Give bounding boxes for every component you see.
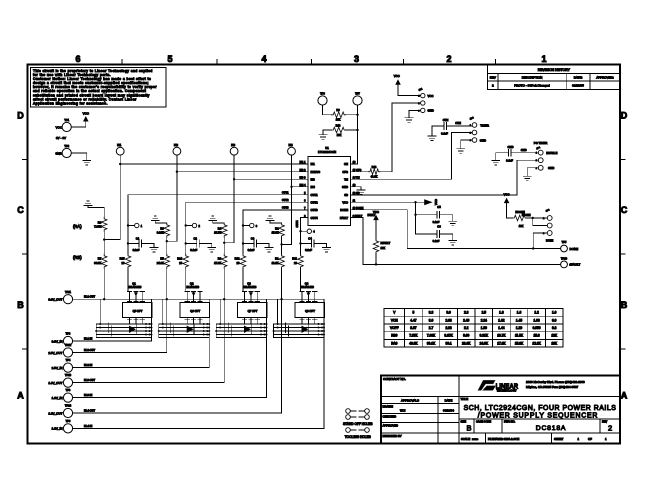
wire divider drop ch4 <box>280 268 282 413</box>
ground <box>151 216 167 223</box>
resistor R7 <box>94 240 107 269</box>
svg-text:8.87K: 8.87K <box>444 334 453 338</box>
wire drain bus ch2 <box>159 298 209 300</box>
svg-text:6: 6 <box>75 54 80 64</box>
svg-text:IN1: IN1 <box>117 143 122 147</box>
resistor RDONE <box>507 210 548 228</box>
wire ON net <box>351 105 358 164</box>
svg-text:IRL3714ZS: IRL3714ZS <box>186 286 199 289</box>
wire source bus ch2 <box>158 299 210 337</box>
ground <box>319 130 327 139</box>
svg-text:OUT4: OUT4 <box>295 220 299 227</box>
ground <box>150 244 158 252</box>
tooling holes <box>345 428 371 439</box>
svg-text:CAGE CODE: CAGE CODE <box>476 420 491 423</box>
svg-text:Q8 OPT: Q8 OPT <box>305 309 315 313</box>
svg-text:C3: C3 <box>251 236 255 240</box>
svg-text:DATE: DATE <box>445 398 453 402</box>
svg-text:D: D <box>17 111 24 121</box>
zone labels <box>17 54 628 401</box>
svg-text:DC818A: DC818A <box>536 425 567 432</box>
voltage/resistor selection table <box>384 309 563 348</box>
svg-text:R6: R6 <box>160 227 164 231</box>
wire FAULT net <box>351 213 561 265</box>
svg-text:IN3 3: IN3 3 <box>300 176 307 179</box>
svg-text:IN3: IN3 <box>311 177 316 181</box>
test point TP7 <box>353 91 362 105</box>
svg-text:Q1: Q1 <box>132 282 136 286</box>
ground <box>457 149 465 153</box>
svg-text:28.0K: 28.0K <box>462 341 471 345</box>
ground <box>208 244 216 252</box>
wire CFG riser <box>392 103 421 172</box>
svg-text:24.9K: 24.9K <box>480 341 489 345</box>
svg-text:C5: C5 <box>437 205 441 209</box>
transistor Q8 footprint <box>295 299 325 324</box>
title block <box>381 376 620 444</box>
capacitor C2 <box>185 226 212 252</box>
svg-text:Q5 OPT: Q5 OPT <box>133 309 143 313</box>
svg-text:15.8K: 15.8K <box>515 341 524 345</box>
svg-text:3.0: 3.0 <box>429 318 434 322</box>
wire SD net <box>351 160 539 195</box>
wire TM net <box>351 133 473 180</box>
svg-text:RL1-IN: RL1-IN <box>84 336 92 340</box>
test point TP8 <box>318 91 327 114</box>
transistor Q6 footprint <box>180 299 210 324</box>
svg-text:2.5V_IN: 2.5V_IN <box>52 366 63 370</box>
svg-text:RL4-OUT: RL4-OUT <box>84 408 96 412</box>
svg-text:IN4: IN4 <box>311 185 316 189</box>
test point TP10 <box>561 256 581 267</box>
test point TP4 2.5V_IN <box>52 358 73 372</box>
svg-text:C8: C8 <box>437 225 441 229</box>
svg-text:WCI: WCI <box>400 409 406 413</box>
test point TP11 3.3V_OUT <box>48 290 72 304</box>
ground <box>428 136 436 140</box>
svg-text:C4: C4 <box>308 236 312 240</box>
svg-text:RDONE: RDONE <box>522 214 531 217</box>
svg-text:R8: R8 <box>98 221 102 225</box>
svg-text:DESIGNED BY: DESIGNED BY <box>383 434 402 438</box>
svg-text:PG TIMER: PG TIMER <box>534 141 547 145</box>
svg-text:1.2V_OUT: 1.2V_OUT <box>48 411 62 415</box>
capacitor C1 <box>127 226 154 252</box>
svg-text:GND: GND <box>480 139 486 143</box>
svg-text:B: B <box>467 424 472 433</box>
svg-text:20: 20 <box>122 261 125 265</box>
svg-text:TECHNOLOGY: TECHNOLOGY <box>497 389 517 392</box>
wire RL3-IN <box>73 393 267 398</box>
wire source bus ch4 <box>273 299 325 337</box>
svg-text:R11: R11 <box>292 257 297 261</box>
wire IN2 vertical <box>167 155 178 241</box>
svg-text:20: 20 <box>237 261 240 265</box>
ground <box>449 241 457 245</box>
wire RL3-OUT <box>73 378 225 383</box>
resistor R5 <box>157 241 170 268</box>
svg-text:4: 4 <box>261 54 266 64</box>
svg-text:OUT1: OUT1 <box>311 193 319 197</box>
svg-text:DONE: DONE <box>546 240 554 243</box>
svg-text:R9: R9 <box>336 108 340 112</box>
power flag VCC JP1 <box>394 74 421 96</box>
resistor R14 <box>177 244 188 292</box>
wire ch4 to RL4-IN <box>323 299 325 428</box>
svg-text:RFAULT: RFAULT <box>381 241 391 245</box>
svg-text:5: 5 <box>167 54 172 64</box>
diode D2 <box>187 325 194 334</box>
svg-text:5: 5 <box>413 311 415 315</box>
wire VCC net <box>351 201 425 203</box>
test point TP12 2.5V_OUT <box>48 343 72 357</box>
svg-text:9.09: 9.09 <box>463 334 469 338</box>
diode D3 <box>244 325 251 334</box>
wire RL3-OUT riser <box>223 272 225 383</box>
test point TP2 <box>55 144 86 161</box>
resistor R2 <box>272 223 285 246</box>
wire OUT3 from IC <box>243 210 308 226</box>
svg-text:VCC: VCC <box>373 210 379 214</box>
wire ch2 to RL2-IN <box>208 299 210 367</box>
test point TP3 3.3V_IN <box>52 332 73 346</box>
resistor R13 <box>351 165 393 179</box>
svg-text:TP3: TP3 <box>66 332 71 336</box>
svg-text:R5: R5 <box>160 257 164 261</box>
wire ch3 to RL3-IN <box>266 299 268 397</box>
svg-text:30.1K: 30.1K <box>427 341 436 345</box>
ground <box>84 201 104 217</box>
turret E3 <box>242 223 258 228</box>
resistor R15 <box>120 244 131 292</box>
stand off holes <box>343 409 373 427</box>
ground <box>523 176 531 180</box>
svg-text:Milpitas, CA 95035 Fax: (408: Milpitas, CA 95035 Fax: (408)434-0507 <box>526 385 579 389</box>
svg-text:1630 McCarthy Blvd. Phone: (4: 1630 McCarthy Blvd. Phone: (408)432-1900 <box>526 380 585 384</box>
svg-text:0.1uF: 0.1uF <box>248 248 255 252</box>
ground <box>492 161 500 165</box>
svg-text:R3: R3 <box>218 257 222 261</box>
wire OUT4 from IC <box>301 218 309 232</box>
svg-text:2: 2 <box>446 54 451 64</box>
svg-text:DONE: DONE <box>570 247 579 251</box>
svg-text:2: 2 <box>608 424 612 433</box>
capacitor CTM <box>432 118 472 136</box>
svg-text:R10: R10 <box>336 123 341 127</box>
wire source bus ch3 <box>215 299 267 337</box>
svg-text:IN1 1: IN1 1 <box>300 161 307 164</box>
wire RL2-IN <box>73 363 210 368</box>
svg-text:12.1K: 12.1K <box>532 341 541 345</box>
svg-text:A: A <box>17 391 24 401</box>
svg-text:3.0: 3.0 <box>446 311 451 315</box>
wire OUT1 from IC <box>128 195 308 226</box>
svg-text:30.1: 30.1 <box>445 341 451 345</box>
svg-text:CMD: CMD <box>508 145 514 149</box>
power flag VCC right <box>424 199 438 205</box>
svg-text:FILENAME: 818A-2.SCH: FILENAME: 818A-2.SCH <box>488 437 519 441</box>
wire drain rail y=299 <box>73 298 324 300</box>
node IN4 <box>288 143 296 155</box>
capacitor C3 <box>242 226 269 252</box>
wire IN3 to IC <box>234 178 308 180</box>
svg-text:36.5K: 36.5K <box>94 261 101 265</box>
wire drain bus ch4 <box>274 298 324 300</box>
svg-text:DWG NO.: DWG NO. <box>504 420 516 423</box>
svg-text:2.8: 2.8 <box>464 311 469 315</box>
Linear Technology logo <box>478 380 585 393</box>
svg-text:2.38: 2.38 <box>445 326 451 330</box>
test point TP9 1.8V_IN <box>52 388 73 402</box>
svg-text:10K: 10K <box>381 246 386 250</box>
ground <box>266 216 282 223</box>
wire IN4 to IC <box>292 186 309 188</box>
svg-text:GND: GND <box>428 109 434 113</box>
svg-text:R13: R13 <box>372 165 377 169</box>
svg-text:IRL3714ZS: IRL3714ZS <box>129 286 142 289</box>
svg-text:TP11: TP11 <box>65 290 72 294</box>
svg-text:0.1uF: 0.1uF <box>133 248 140 252</box>
svg-text:DRAWN: DRAWN <box>383 404 393 408</box>
resistor R1 <box>272 244 285 268</box>
test point TP5 <box>561 240 579 252</box>
test point TP6 1.2V_IN <box>52 419 73 433</box>
transistor Q3 <box>242 282 259 300</box>
svg-text:SCH, LTC2924CGN, FOUR POWER RA: SCH, LTC2924CGN, FOUR POWER RAILS <box>464 405 617 412</box>
wire divider drop ch2 <box>166 268 168 353</box>
svg-text:CMD: CMD <box>521 148 527 152</box>
resistor R3 <box>214 243 227 269</box>
svg-text:CTM: CTM <box>443 118 449 122</box>
svg-text:3.97: 3.97 <box>410 326 416 330</box>
zone tick marks <box>23 60 626 349</box>
svg-text:C2: C2 <box>193 236 197 240</box>
svg-text:VCC: VCC <box>504 193 510 197</box>
svg-text:12K: 12K <box>551 334 558 338</box>
resistor R6 <box>157 223 170 242</box>
svg-text:1.45: 1.45 <box>516 318 522 322</box>
svg-text:FAULT: FAULT <box>340 216 349 220</box>
node IN1 <box>116 143 124 155</box>
svg-text:0.1uF: 0.1uF <box>433 239 440 243</box>
ground <box>405 118 413 122</box>
svg-text:15.8K: 15.8K <box>272 231 279 235</box>
svg-text:RL2-OUT: RL2-OUT <box>84 348 96 352</box>
svg-text:TIMER: TIMER <box>480 123 489 127</box>
resistor R4 <box>214 223 227 244</box>
jumper JP4 PG TIMER <box>527 141 557 176</box>
svg-text:RL4-IN: RL4-IN <box>84 424 92 428</box>
svg-text:7.68K: 7.68K <box>94 225 101 229</box>
transistor Q4 <box>300 282 317 300</box>
svg-text:OUT1: OUT1 <box>282 191 289 194</box>
svg-text:VCC: VCC <box>83 112 90 116</box>
svg-text:TP1: TP1 <box>64 118 69 122</box>
svg-text:2.5V_OUT: 2.5V_OUT <box>48 351 62 355</box>
svg-text:VOFF: VOFF <box>390 326 399 330</box>
svg-text:C: C <box>621 205 628 215</box>
svg-text:IN4: IN4 <box>288 143 293 147</box>
op-amp U1 LTC2924CGN <box>282 146 364 226</box>
wire IN4 vertical <box>282 155 293 244</box>
wire RL4-OUT riser <box>281 272 283 413</box>
power flag VCC input <box>83 112 90 128</box>
test point TP14 1.2V_OUT <box>48 404 72 418</box>
svg-text:B: B <box>621 300 628 310</box>
svg-text:NOHYS: NOHYS <box>311 170 321 174</box>
wire RL4-IN <box>73 424 324 429</box>
svg-text:VON: VON <box>391 318 399 322</box>
wire OUT2 from IC <box>186 202 308 225</box>
wire divider drop ch3 <box>223 268 225 383</box>
wire DONE net <box>351 210 561 250</box>
svg-text:Q3: Q3 <box>247 282 251 286</box>
svg-text:12.1K: 12.1K <box>272 261 279 265</box>
svg-text:3: 3 <box>354 54 359 64</box>
svg-text:3.3V_IN: 3.3V_IN <box>52 339 63 343</box>
ground <box>265 244 273 252</box>
resistor RFAULT <box>373 239 390 264</box>
svg-text:0.1uF: 0.1uF <box>433 220 440 224</box>
test point TP1 <box>56 118 86 132</box>
proprietary notice box <box>31 68 167 108</box>
svg-text:IN4 4: IN4 4 <box>300 184 307 187</box>
svg-text:48.9K: 48.9K <box>371 175 378 179</box>
svg-text:GND: GND <box>548 166 554 170</box>
svg-text:R4: R4 <box>218 227 222 231</box>
wire IN1 to IC <box>120 163 308 165</box>
svg-text:10.7K: 10.7K <box>497 334 506 338</box>
transistor Q1 <box>127 282 144 300</box>
svg-text:0.8: 0.8 <box>552 326 557 330</box>
svg-text:REV: REV <box>602 420 607 423</box>
svg-text:CHECKED: CHECKED <box>383 414 397 418</box>
svg-text:IRL3714ZS: IRL3714ZS <box>301 286 314 289</box>
svg-text:2.5: 2.5 <box>482 311 487 315</box>
wire drain bus ch1 <box>96 298 151 300</box>
svg-text:TP13: TP13 <box>65 373 72 377</box>
svg-text:SCALE: SCALE <box>461 437 470 441</box>
svg-text:OF: OF <box>588 437 592 441</box>
svg-text:Q7 OPT: Q7 OPT <box>248 309 258 313</box>
label (RB) <box>73 255 82 260</box>
svg-text:APPROVED:: APPROVED: <box>596 76 614 80</box>
svg-text:(RB): (RB) <box>73 255 82 260</box>
svg-text:7.68K: 7.68K <box>427 334 436 338</box>
capacitor C4 <box>299 231 326 252</box>
svg-text:VCC: VCC <box>342 200 348 204</box>
revision history block <box>488 65 620 90</box>
svg-text:R12: R12 <box>235 257 240 261</box>
svg-text:0.1uF: 0.1uF <box>305 248 312 252</box>
svg-text:(RA): (RA) <box>73 224 82 229</box>
jumper JP3 <box>543 209 554 243</box>
svg-text:1.29: 1.29 <box>516 326 522 330</box>
svg-text:OUT3: OUT3 <box>311 208 319 212</box>
svg-text:OUT3: OUT3 <box>282 207 289 210</box>
wire drain bus ch3 <box>216 298 266 300</box>
svg-text:C1: C1 <box>136 236 140 240</box>
svg-text:3.3: 3.3 <box>429 311 434 315</box>
svg-text:10.7K: 10.7K <box>214 231 221 235</box>
resistor R10 <box>323 123 359 137</box>
svg-text:SIZE: SIZE <box>461 420 467 423</box>
svg-text:1.99: 1.99 <box>481 326 487 330</box>
svg-text:20: 20 <box>179 261 182 265</box>
svg-text:#FAULT: #FAULT <box>570 263 581 267</box>
svg-text:D: D <box>621 111 628 121</box>
svg-text:01/28/05: 01/28/05 <box>572 84 584 88</box>
svg-text:RL3-IN: RL3-IN <box>84 393 92 397</box>
svg-text:1.44: 1.44 <box>498 326 504 330</box>
svg-text:ENABLE: ENABLE <box>546 151 557 155</box>
resistor R8 <box>94 217 107 241</box>
svg-text:9.31K: 9.31K <box>480 334 489 338</box>
svg-text:IN2: IN2 <box>174 143 179 147</box>
border frame <box>28 65 621 444</box>
transistor Q2 <box>185 282 202 300</box>
svg-text:R7: R7 <box>98 257 102 261</box>
svg-text:20: 20 <box>294 261 297 265</box>
svg-text:1.62: 1.62 <box>498 318 504 322</box>
resistor R12 <box>235 244 246 292</box>
svg-text:REV: REV <box>490 76 496 80</box>
label 3V - 6V <box>56 136 66 140</box>
svg-text:1.6: 1.6 <box>517 311 522 315</box>
svg-text:R15: R15 <box>120 257 125 261</box>
svg-text:GND: GND <box>342 185 348 189</box>
svg-text:3.3V_OUT: 3.3V_OUT <box>48 298 62 302</box>
svg-text:Q2: Q2 <box>190 282 194 286</box>
svg-text:1.2: 1.2 <box>534 311 539 315</box>
svg-text:RA0: RA0 <box>391 341 397 345</box>
transistor Q7 footprint <box>238 299 268 324</box>
svg-text:ON: ON <box>344 162 348 166</box>
svg-text:TP2: TP2 <box>64 144 69 148</box>
svg-text:08/18/04: 08/18/04 <box>443 409 454 413</box>
svg-text:CTM: CTM <box>455 121 461 125</box>
svg-text:2.24: 2.24 <box>481 318 487 322</box>
svg-text:TP7: TP7 <box>355 91 360 95</box>
svg-text:0.1uF: 0.1uF <box>506 158 513 162</box>
svg-text:1.0: 1.0 <box>552 311 557 315</box>
transistor Q5 footprint <box>123 299 153 324</box>
svg-text:24.9K: 24.9K <box>157 261 164 265</box>
wire IN3 vertical <box>224 155 235 243</box>
svg-text:9.31K: 9.31K <box>157 231 164 235</box>
svg-text:0.1uF: 0.1uF <box>441 132 448 136</box>
svg-text:10K: 10K <box>337 133 342 137</box>
svg-text:Application Engineering for as: Application Engineering for assistance. <box>33 101 108 105</box>
diode D4 <box>302 325 309 334</box>
svg-text:1: 1 <box>541 54 546 64</box>
ground <box>449 221 457 225</box>
svg-text:10K: 10K <box>336 118 341 122</box>
svg-text:TP6: TP6 <box>66 419 71 423</box>
ground <box>83 161 91 165</box>
ground <box>357 190 365 194</box>
wire ch1 to RL1-IN <box>151 299 153 341</box>
svg-text:1.8: 1.8 <box>499 311 504 315</box>
power flag VCC RFAULT <box>373 210 379 239</box>
svg-text:15.8: 15.8 <box>533 334 539 338</box>
svg-text:10K: 10K <box>551 341 558 345</box>
svg-text:Q4: Q4 <box>305 282 309 286</box>
svg-text:TITLE: TITLE <box>461 397 469 401</box>
capacitor C8 <box>416 225 453 244</box>
svg-text:/POWER SUPPLY SEQUENCER: /POWER SUPPLY SEQUENCER <box>478 413 598 420</box>
svg-text:TP14: TP14 <box>65 404 72 408</box>
